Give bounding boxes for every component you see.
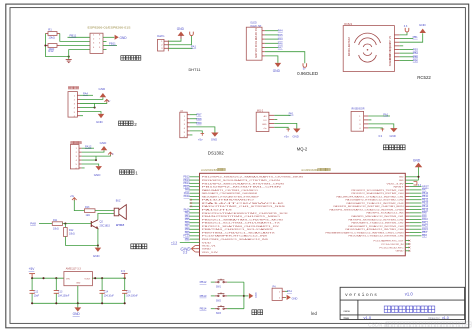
pin stubs relay1 [79, 148, 82, 168]
wire pin8 stub [103, 49, 107, 51]
svg-text:VDD: VDD [202, 242, 212, 244]
node junction relay2 [94, 106, 96, 108]
connector J1 ESP8266 header [90, 33, 103, 53]
net label PA8 buzzer [30, 222, 36, 226]
net label PA4 OLED [278, 29, 283, 33]
svg-text:VDD_3.3V: VDD_3.3V [387, 183, 405, 185]
pin stubs mcu power [195, 245, 199, 252]
wire led pin2 [285, 296, 286, 298]
wire R11 to base [63, 223, 92, 225]
wire ground stub [68, 57, 70, 60]
svg-text:PA4: PA4 [83, 92, 88, 96]
wire relay2 pin6 stub [80, 115, 83, 117]
svg-text:v1.0: v1.0 [364, 315, 372, 320]
svg-text:PA4/SPI1_NSS/USART2_CK/ADC12_I: PA4/SPI1_NSS/USART2_CK/ADC12_IN4/TIM1_CH… [330, 208, 405, 211]
wire junction to R12v [64, 224, 66, 228]
label IR sensor [383, 145, 405, 150]
svg-text:PA11/USART1_CTS/CANRX/TIM1_CH4: PA11/USART1_CTS/CANRX/TIM1_CH4/USBDM [202, 192, 257, 195]
svg-text:PA8/USART1_CK/TIM1_CH1/MCO: PA8/USART1_CK/TIM1_CH1/MCO [202, 189, 259, 192]
label keys [252, 310, 263, 315]
power GND arrow wireless [115, 35, 128, 40]
label led [311, 311, 317, 316]
net label PB14 key [200, 307, 207, 311]
wire RC522 pin8 [400, 59, 414, 61]
svg-text:104,100nF: 104,100nF [58, 295, 70, 298]
svg-text:PB11: PB11 [109, 42, 116, 46]
regulator U2 AMS1117-3.3 [64, 267, 93, 285]
capacitor C12 [30, 278, 40, 303]
svg-text:led: led [311, 311, 317, 316]
label relay2 [119, 121, 138, 127]
svg-text:PB6: PB6 [413, 58, 419, 62]
power GND arrow OLED [273, 63, 281, 73]
wire relay1 pin5 to GND [82, 164, 99, 166]
svg-text:0.96OLED: 0.96OLED [297, 71, 319, 76]
capacitor C13 [54, 278, 70, 303]
svg-text:DS1302: DS1302 [208, 151, 224, 156]
svg-text:PA6/SPI1_MISO/ADC12_IN6/TIM3_C: PA6/SPI1_MISO/ADC12_IN6/TIM3_CH1 [352, 215, 405, 218]
wire 5v to R13 [74, 200, 84, 210]
svg-text:DO: DO [264, 120, 267, 122]
wire key2 left [211, 295, 215, 297]
title label name [344, 310, 351, 313]
svg-text:GND: GND [399, 177, 404, 179]
net label PB8 DS1302 [196, 117, 202, 121]
svg-text:PB3/JTDO/TRACESWO/TIM2_CH2/SPI: PB3/JTDO/TRACESWO/TIM2_CH2/SPI1_SCK [202, 212, 289, 215]
svg-text:PA7/SPI1_MOSI/ADC12_IN7/TIM3_C: PA7/SPI1_MOSI/ADC12_IN7/TIM3_CH2 [349, 218, 405, 221]
power GND arrow buzzer [93, 248, 101, 258]
power GND arrow mcu top [413, 158, 422, 167]
svg-text:GND: GND [76, 282, 81, 284]
svg-text:GND: GND [100, 141, 108, 145]
wire riser to pin4 [69, 50, 90, 57]
wire rail to gnd [97, 246, 99, 248]
wire mcu gnd riser [418, 167, 420, 180]
label buzzer [131, 244, 147, 249]
label MCU title left [201, 168, 225, 172]
wire relay1 pin6 stub [82, 167, 85, 169]
svg-text:PB1: PB1 [413, 35, 419, 39]
svg-text:PA8: PA8 [30, 222, 36, 226]
svg-text:SW2: SW2 [216, 300, 222, 302]
svg-text:R13: R13 [85, 206, 90, 209]
svg-text:PB11: PB11 [70, 33, 77, 37]
net labels mcu left [183, 176, 190, 241]
wire R13 to buzzer [95, 210, 114, 212]
svg-text:HYDZ: HYDZ [116, 223, 124, 227]
svg-text:PA3/SPI1_MOSI/ADC12_IN3/TIM2_C: PA3/SPI1_MOSI/ADC12_IN3/TIM2_CH4/TIM1_BK… [334, 205, 405, 208]
net label PA7 OLED [278, 46, 283, 50]
label OLED title2 [250, 25, 261, 28]
svg-text:AO: AO [264, 115, 267, 118]
net label PA12 relay1 [85, 145, 92, 149]
resistor R13 [85, 206, 96, 217]
label OLED title1 [250, 22, 257, 25]
power GND arrow reg [73, 307, 82, 316]
resistor R12 [45, 44, 59, 53]
wire relay2 pin4 [80, 107, 95, 109]
svg-text:GND: GND [413, 158, 421, 162]
title text v1.0 top [405, 292, 414, 297]
label MQ-2 [297, 146, 308, 151]
svg-text:PA3: PA3 [278, 37, 283, 41]
wire RC522 pin2 net [400, 38, 414, 40]
wire OLED pin4 [265, 42, 278, 44]
svg-text:PB13/SPI2_SCK/USART3_CTS/TIM1_: PB13/SPI2_SCK/USART3_CTS/TIM1_CH1N [202, 179, 281, 182]
svg-text:PA15/JTDI: PA15/JTDI [202, 209, 233, 212]
title label date [344, 316, 350, 320]
wire MQ-2 pin1 net [274, 114, 290, 116]
watermark [368, 322, 471, 328]
wire relay1 pin2 to GND [82, 150, 104, 152]
svg-text:PB5/I2C1_SMBA/TIM3_CH2/SPI1_MO: PB5/I2C1_SMBA/TIM3_CH2/SPI1_MOSI [202, 218, 284, 221]
wire key2 right [227, 295, 244, 297]
svg-text:+5v: +5v [198, 137, 203, 141]
svg-text:GND: GND [273, 69, 281, 73]
svg-text:SW3: SW3 [216, 313, 222, 315]
wire buzzer bottom rail [65, 245, 98, 247]
svg-text:3.3: 3.3 [404, 25, 408, 28]
power flag cup OLED [303, 63, 307, 70]
connector relay1 [70, 145, 79, 170]
wire R12v to rail [64, 237, 66, 246]
wire reg top rail right [92, 277, 124, 279]
power tee DS1302 [198, 133, 204, 141]
svg-text:C15: C15 [126, 291, 131, 294]
no-connect marks mcu left [190, 199, 192, 207]
pin stubs IR [364, 116, 369, 128]
node junction key bus [243, 295, 245, 297]
no-connect pins mcu right [405, 240, 410, 252]
label relay2 title [68, 87, 78, 89]
connector DS1302 [180, 112, 187, 138]
svg-text:GND: GND [399, 180, 404, 182]
svg-text:PB13: PB13 [200, 294, 207, 298]
svg-text:PA12: PA12 [184, 195, 191, 198]
net label PB6 RC522 [413, 58, 419, 62]
net label PA1 IR [383, 112, 388, 116]
svg-text:PA2/USART2_TX/ADC12_IN2/TIM2_C: PA2/USART2_TX/ADC12_IN2/TIM2_CH3 [347, 202, 405, 205]
svg-text:R12: R12 [69, 229, 74, 232]
net label PB5 RC522 [413, 55, 419, 59]
svg-text:GND: GND [293, 135, 299, 139]
svg-text:GND: GND [120, 36, 128, 40]
connector relay2 [68, 92, 77, 118]
wire relay2 pin1 net [80, 94, 93, 96]
power GND arrow relay2 [99, 87, 107, 97]
label wireless module [121, 56, 141, 61]
pin stubs led [282, 291, 285, 297]
power GND arrow down relay2 [96, 114, 104, 124]
power bar reg input [29, 274, 35, 279]
wire IR pin4 to 3.3 [368, 127, 382, 130]
label DaPin [157, 34, 165, 38]
label DS1302 [208, 151, 224, 156]
power +5v flag buzzer [70, 195, 77, 201]
svg-text:PB14/SPI2_MISO/USART3_RTS/TIM1: PB14/SPI2_MISO/USART3_RTS/TIM1_CH2N [202, 182, 285, 185]
connector IR sensor [351, 111, 364, 131]
net label PA5 OLED [278, 33, 283, 37]
wire OLED pin1 [265, 30, 278, 32]
wire DS1302 pin5 to 5V [190, 131, 203, 133]
wire IR pin2 stub [368, 119, 371, 121]
component OLED 0.96 [246, 27, 262, 60]
pin names RC522 [389, 35, 392, 66]
label MCU title right [301, 168, 330, 172]
power tee MQ-2 [284, 129, 290, 138]
power tee IR [378, 129, 384, 138]
svg-text:BUZ: BUZ [116, 200, 121, 203]
svg-text:+3.3: +3.3 [171, 241, 177, 245]
power GND arrow RC522 [419, 23, 427, 33]
svg-text:GND: GND [99, 87, 107, 91]
svg-text:PB1/USART3_CTS/ADC12_IN9/TIM3_: PB1/USART3_CTS/ADC12_IN9/TIM3_CH4 [349, 235, 405, 238]
svg-text:v1.0: v1.0 [442, 316, 449, 320]
wire mcu GND row2 [405, 179, 418, 181]
connector MQ-2 [256, 112, 269, 131]
antenna arcs RC522 [355, 33, 381, 62]
switch SW2 [215, 293, 227, 303]
wire led pin1 [285, 290, 288, 292]
wire DS1302 pin1 [190, 114, 197, 116]
svg-text:PB6/I2C1_SCL/TIM4_CH1/USART1_T: PB6/I2C1_SCL/TIM4_CH1/USART1_TX [202, 222, 281, 225]
net label PB4 RC522 [413, 51, 419, 55]
power GND crown IR [390, 129, 397, 139]
svg-text:10kΩ: 10kΩ [53, 228, 59, 231]
svg-text:PB9: PB9 [196, 121, 202, 125]
wire RC522 pin3 to GND [400, 33, 423, 42]
svg-text:PA7: PA7 [278, 46, 283, 50]
wire IR pin1 net [368, 115, 390, 117]
label MQ-2 ref [257, 110, 264, 113]
svg-text:C14: C14 [104, 291, 109, 294]
node dots rail left [31, 277, 57, 279]
net label +3.3 mcu [171, 241, 177, 245]
capacitor C15 [122, 278, 138, 303]
svg-text:PB7/I2C1_SDA/TIM4_CH2/USART1_R: PB7/I2C1_SDA/TIM4_CH2/USART1_RX [202, 225, 280, 228]
wire RC522 pin7 [400, 56, 414, 58]
svg-text:GND: GND [292, 296, 298, 300]
net label PA1 MQ-2 [289, 112, 294, 116]
svg-text:1kΩ: 1kΩ [86, 214, 91, 217]
wire key1 right [227, 281, 244, 283]
svg-text:DaPin: DaPin [157, 34, 165, 38]
resistor R1 [45, 28, 59, 40]
svg-text:104,10uF: 104,10uF [104, 295, 115, 298]
wire relay1 pin4 [82, 159, 96, 161]
net label PA1 DHT11 [191, 44, 197, 48]
power bracket 3.3 mcu [414, 182, 422, 187]
label led ref P4 [273, 286, 277, 289]
wire R1 to pin2 [60, 34, 90, 42]
svg-text:PC14-OSC32_IN: PC14-OSC32_IN [382, 244, 405, 246]
wire relay1 pin1 net [82, 147, 94, 149]
wire gnd stub reg [77, 303, 79, 307]
net label PB13 key [200, 294, 207, 298]
wire RC522 pin6 [400, 52, 414, 54]
svg-text:GND: GND [419, 23, 427, 27]
wire collector to buzzer [98, 213, 114, 219]
svg-text:10kΩ: 10kΩ [48, 48, 54, 51]
svg-text:versions: versions [345, 292, 377, 298]
wire PA8 to R11 [39, 223, 52, 225]
svg-text:C13: C13 [58, 291, 63, 294]
svg-text:+5V: +5V [29, 267, 36, 271]
svg-text:GND: GND [390, 134, 396, 138]
svg-text:10kΩ: 10kΩ [69, 233, 75, 236]
svg-text:PB8/TIM4_CH3/I2C1_SCL/CANRX: PB8/TIM4_CH3/I2C1_SCL/CANRX [202, 228, 274, 231]
power GND arrow led [287, 295, 298, 301]
wire relay1 pin3 to 5V [82, 155, 111, 156]
connector led [272, 288, 282, 300]
svg-text:R1: R1 [48, 28, 52, 32]
wire DS1302 pin6 stub [190, 134, 193, 136]
svg-text:IRQ: IRQ [390, 47, 392, 51]
power chevron relay1 [108, 152, 115, 155]
svg-text:PA14/JTCK/SWCLK: PA14/JTCK/SWCLK [202, 202, 287, 205]
svg-text:GND: GND [73, 312, 81, 316]
wire DS1302 pin2 [190, 118, 197, 120]
svg-text:PB1: PB1 [185, 238, 190, 241]
title text draw by [429, 316, 449, 320]
svg-text:PB8: PB8 [196, 117, 202, 121]
svg-text:RC522: RC522 [417, 75, 431, 80]
net label PA4 relay2 [83, 92, 88, 96]
svg-text:PB4: PB4 [413, 51, 419, 55]
wire key bus to gnd [244, 295, 249, 297]
node junction base [64, 223, 66, 225]
svg-text:PA12/USART1_ATS/ADC12_IN1/TIM1: PA12/USART1_ATS/ADC12_IN1/TIM1_CH4 [346, 228, 405, 231]
title text v1.0 date [364, 315, 372, 320]
resistor R12 pulldown [64, 228, 75, 237]
net label PB11 right [109, 42, 116, 46]
power bracket mcu [191, 245, 195, 252]
svg-text:PB10/I2C2_SCL/USART3_TX/TIM2_C: PB10/I2C2_SCL/USART3_TX/TIM2_CH3 [352, 189, 405, 192]
wire pin5 to GND arrow [103, 36, 114, 38]
wire RC522 pin1 to 3.3 [400, 32, 407, 35]
svg-text:PB14: PB14 [200, 307, 207, 311]
net label PB9 DS1302 [196, 121, 202, 125]
node junction emitter rail [97, 244, 99, 246]
wire bottom rail to ground [45, 56, 68, 58]
buzzer LS1 [114, 200, 126, 228]
pin stubs RC522 [394, 35, 399, 61]
svg-text:PB4: PB4 [422, 235, 427, 238]
label RC522 [417, 75, 431, 80]
switch SW3 [215, 305, 227, 315]
label relay1 title [71, 141, 81, 143]
title text project name [384, 306, 435, 313]
pin name vdd row [202, 242, 212, 244]
svg-text:PA1: PA1 [383, 112, 388, 116]
wire relay2 pin5 to GND [80, 112, 101, 114]
svg-text:104,100nF: 104,100nF [126, 295, 138, 298]
net label PA1 led [287, 289, 292, 293]
label RC522 ref [344, 23, 352, 26]
net label PA6 OLED [278, 41, 283, 45]
resistor R11 [52, 219, 62, 231]
svg-text:GND: GND [177, 27, 185, 31]
pin stubs OLED [262, 31, 265, 56]
svg-text:PA12: PA12 [85, 145, 92, 149]
label ESP8266 module title [88, 26, 131, 30]
node junction bottom [68, 56, 70, 58]
svg-text:PB5: PB5 [413, 55, 419, 59]
svg-text:PB7: PB7 [196, 113, 202, 117]
svg-text:PB3: PB3 [413, 48, 419, 52]
svg-text:Draw by:: Draw by: [429, 316, 441, 320]
label 0.96OLED [297, 71, 319, 76]
svg-text:stm32f103c8t6: stm32f103c8t6 [301, 169, 318, 172]
svg-text:name: name [344, 310, 351, 313]
node junction relay1 [95, 159, 97, 161]
wire DHT11 pin2 to 5V [168, 36, 191, 45]
net label PB3 RC522 [413, 48, 419, 52]
wire key3 right [227, 308, 244, 310]
wire relay2 junction riser [94, 103, 96, 107]
svg-text:PB9/TIM4_CH4/I2C1_SDA/CANTX: PB9/TIM4_CH4/I2C1_SDA/CANTX [202, 231, 276, 234]
svg-text:PA13/JTMS/SWDIO: PA13/JTMS/SWDIO [202, 199, 255, 202]
wire relay2 pin3 to 5V [80, 102, 107, 103]
svg-text:PA0-WKUP/USART2_CTS/ADC12_IN0/: PA0-WKUP/USART2_CTS/ADC12_IN0/TIM2_CH1 [337, 195, 405, 198]
svg-text:PA1/USART2_RTS/ADC12_IN1/TIM2_: PA1/USART2_RTS/ADC12_IN1/TIM2_CH2 [346, 199, 405, 202]
svg-text:VDD_3.3V: VDD_3.3V [202, 252, 219, 254]
power GND arrow DHT11 [177, 27, 185, 39]
net label PB1 RC522 [413, 35, 419, 39]
component RC522 antenna module [343, 26, 394, 72]
wires mcu left pins [190, 177, 200, 239]
svg-text:PC13/TAMPER-RTC/ADC12_IN8: PC13/TAMPER-RTC/ADC12_IN8 [202, 235, 269, 238]
svg-text:Date: Date [344, 316, 350, 320]
svg-text:PB4/NJTRST/TIM3_CH1/SPI1_MISO: PB4/NJTRST/TIM3_CH1/SPI1_MISO [202, 216, 281, 218]
wire reg top rail left [32, 277, 64, 279]
net labels mcu right [422, 185, 429, 237]
svg-text:PA15/JTDI/TIM2_CH1_ETR/SPI1_NS: PA15/JTDI/TIM2_CH1_ETR/SPI1_NSS [202, 205, 286, 208]
svg-text:VS: VS [390, 35, 392, 39]
label DS1302 ref [180, 110, 184, 112]
svg-text:C12: C12 [34, 291, 39, 294]
svg-text:ESP8266-01/ESP8266-01S: ESP8266-01/ESP8266-01S [88, 26, 131, 30]
svg-text:PB0/BMSR/USART3_CTS/ADC12_IN8/: PB0/BMSR/USART3_CTS/ADC12_IN8/TIM3_CH3/1… [326, 231, 405, 234]
power GND arrow down relay1 [94, 166, 102, 177]
wire relay2 pin2 to GND [80, 97, 103, 99]
svg-text:PA9/USART1_TX/ADC12_IN9/TIM1_C: PA9/USART1_TX/ADC12_IN9/TIM1_CH2 [352, 222, 405, 225]
svg-text:GND: GND [396, 251, 405, 253]
svg-text:v1.0: v1.0 [405, 292, 414, 297]
net label PB12 key [200, 280, 207, 284]
svg-text:GND: GND [96, 120, 104, 124]
label IR title [351, 107, 365, 110]
svg-text:+5v: +5v [263, 128, 266, 130]
wire +3.3 mcu [180, 241, 200, 243]
svg-text:VIN: VIN [66, 278, 70, 280]
wire OLED pin3 [265, 38, 278, 40]
wire MQ-2 pin3 to GND [274, 123, 297, 128]
svg-text:AMS1117-3.3: AMS1117-3.3 [66, 267, 82, 270]
svg-text:10kΩ: 10kΩ [48, 36, 54, 40]
wire R12 to pin3 [60, 45, 90, 47]
wire OLED pin6 to 5V [265, 52, 305, 64]
label relay1 [120, 170, 139, 176]
svg-text:SW1: SW1 [216, 287, 222, 289]
wire emitter down [97, 229, 99, 246]
svg-text:GND: GND [202, 249, 212, 251]
svg-text:GND: GND [211, 137, 217, 141]
pin names mcu power [202, 245, 219, 254]
svg-text:DHT11: DHT11 [189, 67, 201, 72]
title text versions [345, 292, 377, 298]
wire key1 left [211, 281, 215, 283]
